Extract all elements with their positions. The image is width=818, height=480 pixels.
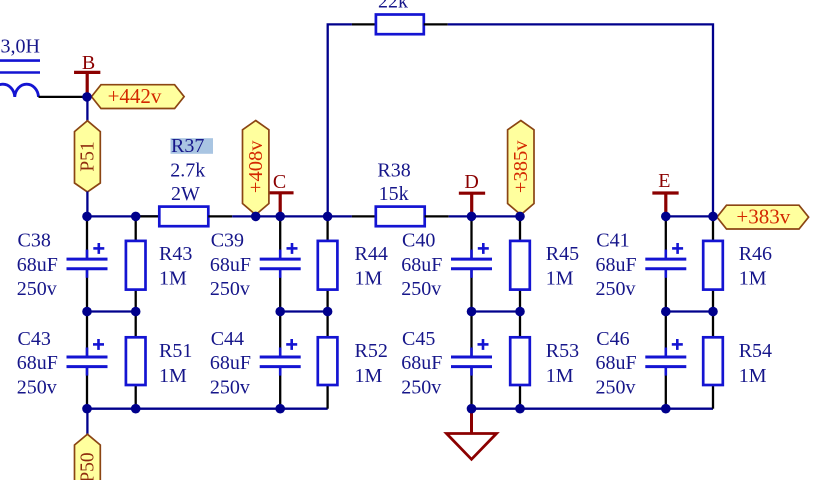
capacitor C38 value label 68uF [17,254,58,276]
resistor R38 left pin [352,215,376,217]
capacitor C41 rating label 250v [596,278,636,300]
resistor R-22k left pin [352,23,376,25]
resistor R46 value label 1M [739,268,767,290]
node C marker [267,171,293,216]
junction top rail at +385v / R45 [515,212,525,222]
resistor R53 designator label [546,340,579,362]
resistor R53 pins [519,312,521,409]
junction bottom rail at C46 [661,404,671,414]
junction top rail at R44 / 22k loop [323,212,333,222]
resistor R43 value label 1M [159,268,187,290]
svg-text:1M: 1M [546,268,574,290]
junction middle rail at R44 [323,307,333,317]
resistor R51 pins [135,312,137,409]
capacitor C38 designator label [18,229,51,251]
resistor R46 pins [712,216,714,311]
capacitor C38 pins [86,216,88,311]
capacitor C41 pins [665,216,667,311]
junction middle rail at C39 [275,307,285,317]
wire middle rail C38/R43 [87,310,136,312]
svg-text:C44: C44 [211,328,244,350]
svg-text:250v: 250v [210,377,250,399]
capacitor C44 designator label [211,328,244,350]
capacitor C45 value label 68uF [401,352,442,374]
svg-text:2.7k: 2.7k [170,160,205,182]
svg-text:68uF: 68uF [401,254,442,276]
resistor R38 right pin [425,215,449,217]
capacitor C45 pins [470,312,472,409]
wire middle rail C41/R46 [666,310,713,312]
inductor L1 value label 3,0H [1,36,40,58]
capacitor C45 rating label 250v [401,377,441,399]
svg-text:1M: 1M [739,268,767,290]
wire 22k loop top horizontal and right vertical [448,24,713,216]
resistor R45 value label 1M [546,268,574,290]
resistor R38 designator label [377,160,410,182]
svg-text:1M: 1M [355,365,383,387]
wire bottom rail right segment [472,408,714,410]
power flag +383v [717,205,809,230]
wire top rail segment R38 to node +385v [449,215,520,217]
connector P51 [75,121,101,192]
junction middle rail at R45 [515,307,525,317]
power flag +442v [92,84,185,109]
capacitor C39 designator label [211,229,244,251]
capacitor C43 value label 68uF [17,352,58,374]
junction top rail at +383v / R46 [708,212,718,222]
resistor R53 [510,337,530,385]
resistor R43 designator label [159,243,192,265]
svg-text:1M: 1M [355,268,383,290]
resistor R44 pins [326,216,328,311]
svg-text:C46: C46 [596,328,629,350]
svg-text:250v: 250v [596,377,636,399]
resistor R44 [318,241,338,290]
junction bottom rail at C44 [275,404,285,414]
resistor R46 designator label [739,243,772,265]
resistor R52 value label 1M [355,365,383,387]
resistor R52 designator label [355,340,388,362]
svg-text:C43: C43 [18,328,51,350]
svg-text:R53: R53 [546,340,579,362]
capacitor C46 designator label [596,328,629,350]
wire top rail segment R37 to R38 [232,215,352,217]
svg-text:+383v: +383v [736,205,790,229]
svg-text:R46: R46 [739,243,772,265]
resistor R37 right pin [208,215,232,217]
svg-text:1M: 1M [546,365,574,387]
capacitor C44 value label 68uF [210,352,251,374]
resistor R45 [510,241,530,290]
resistor R54 designator label [739,340,772,362]
capacitor C39 value label 68uF [210,254,251,276]
power flag +385v [508,121,534,215]
svg-text:P50: P50 [78,452,99,480]
resistor R37 left pin [136,215,160,217]
capacitor C46 value label 68uF [596,352,637,374]
svg-text:R45: R45 [546,243,579,265]
svg-text:1M: 1M [159,268,187,290]
svg-text:250v: 250v [17,278,57,300]
ground [447,409,497,460]
svg-text:R52: R52 [355,340,388,362]
svg-text:68uF: 68uF [596,254,637,276]
capacitor C41 value label 68uF [596,254,637,276]
junction middle rail at C38 [82,307,92,317]
resistor R52 [318,337,338,385]
capacitor C41 designator label [596,229,629,251]
capacitor C46 [645,339,686,376]
resistor R38 [376,207,425,227]
inductor L1 winding [0,84,39,97]
wire bottom rail left segment [87,408,328,410]
resistor R51 designator label [159,340,192,362]
power flag +408v [243,121,269,215]
svg-text:250v: 250v [17,377,57,399]
wire inductor to node B [39,96,88,98]
node B marker [74,52,100,97]
svg-text:B: B [82,52,95,74]
resistor R37 designator label (highlighted) [171,135,214,157]
resistor R52 pins [326,312,328,409]
junction bottom rail at R51 [131,404,141,414]
resistor R54 [703,337,723,385]
capacitor C43 rating label 250v [17,377,57,399]
resistor R-22k value label 22k [378,0,408,13]
junction node B [82,92,92,102]
svg-text:1M: 1M [159,365,187,387]
resistor R44 designator label [355,243,388,265]
resistor R51 value label 1M [159,365,187,387]
capacitor C39 [260,243,301,278]
capacitor C38 [67,243,108,278]
resistor R45 designator label [546,243,579,265]
svg-text:C41: C41 [596,229,629,251]
junction middle rail at R43 [131,307,141,317]
capacitor C39 pins [279,216,281,311]
svg-text:E: E [658,170,670,192]
capacitor C38 rating label 250v [17,278,57,300]
node E marker [652,170,678,216]
svg-text:R44: R44 [355,243,388,265]
capacitor C45 [451,339,492,376]
svg-text:C38: C38 [18,229,51,251]
svg-text:R51: R51 [159,340,192,362]
junction top rail at node C / C39 [275,212,285,222]
svg-text:D: D [464,171,478,193]
capacitor C46 pins [665,312,667,409]
svg-text:250v: 250v [210,278,250,300]
svg-text:68uF: 68uF [596,352,637,374]
svg-text:+408v: +408v [245,140,267,193]
resistor R37 value label 2.7k [170,160,205,182]
svg-text:22k: 22k [378,0,408,13]
resistor R51 [126,337,146,385]
resistor R-22k [376,15,424,35]
svg-text:2W: 2W [171,183,200,205]
resistor R45 pins [519,216,521,311]
capacitor C44 pins [279,312,281,409]
capacitor C44 rating label 250v [210,377,250,399]
wire middle rail C40/R45 [472,310,521,312]
svg-text:1M: 1M [739,365,767,387]
svg-text:3,0H: 3,0H [1,36,40,58]
junction bottom rail at P50 [82,404,92,414]
wire 22k loop left vertical and top-left corner [328,24,352,216]
capacitor C39 rating label 250v [210,278,250,300]
junction top rail at R43 [131,212,141,222]
junction top rail at +408v [251,212,261,222]
resistor R38 value label 15k [379,183,409,205]
capacitor C45 designator label [402,328,435,350]
wire node B to P51 [86,97,88,122]
capacitor C41 [645,243,686,278]
resistor R-22k right pin [424,23,448,25]
resistor R53 value label 1M [546,365,574,387]
junction top rail at node E / C41 [661,212,671,222]
svg-text:68uF: 68uF [210,254,251,276]
svg-text:250v: 250v [596,278,636,300]
svg-text:R54: R54 [739,340,772,362]
svg-text:+385v: +385v [510,140,532,193]
resistor R54 pins [712,312,714,409]
wire middle rail C39/R44 [280,310,327,312]
resistor R37 [159,207,208,227]
resistor R46 [703,241,723,290]
svg-text:R43: R43 [159,243,192,265]
wire P51 to top rail [86,192,88,217]
inductor L1 core bars [0,61,40,73]
capacitor C40 [451,243,492,278]
svg-text:68uF: 68uF [17,254,58,276]
junction bottom rail at ground / C45 [467,404,477,414]
svg-text:68uF: 68uF [401,352,442,374]
svg-text:C: C [273,171,286,193]
resistor R43 [126,241,146,290]
connector P50 [75,434,101,480]
svg-text:C39: C39 [211,229,244,251]
wire bottom rail to P50 [86,409,88,435]
wire top rail segment node E to +383v corner [666,215,713,217]
svg-text:15k: 15k [379,183,409,205]
svg-text:P51: P51 [78,141,99,171]
svg-text:68uF: 68uF [17,352,58,374]
capacitor C46 rating label 250v [596,377,636,399]
capacitor C40 pins [470,216,472,311]
capacitor C43 [67,339,108,376]
svg-text:+442v: +442v [108,84,162,108]
capacitor C43 pins [86,312,88,409]
junction middle rail at C41 [661,307,671,317]
svg-text:R38: R38 [377,160,410,182]
svg-text:C45: C45 [402,328,435,350]
capacitor C40 rating label 250v [401,278,441,300]
resistor R43 pins [135,216,137,311]
svg-text:C40: C40 [402,229,435,251]
capacitor C43 designator label [18,328,51,350]
svg-text:250v: 250v [401,278,441,300]
resistor R44 value label 1M [355,268,383,290]
resistor R37 rating label 2W [171,183,200,205]
capacitor C44 [260,339,301,376]
junction middle rail at R46 [708,307,718,317]
node D marker [459,171,485,216]
resistor R54 value label 1M [739,365,767,387]
junction middle rail at C40 [467,307,477,317]
junction top rail at node D / C40 [467,212,477,222]
capacitor C40 designator label [402,229,435,251]
junction bottom rail at R53 [515,404,525,414]
svg-text:250v: 250v [401,377,441,399]
svg-text:68uF: 68uF [210,352,251,374]
junction top rail at P51 column [82,212,92,222]
svg-text:R37: R37 [171,135,204,157]
wire top rail segment node B column to R37 [87,215,159,217]
capacitor C40 value label 68uF [401,254,442,276]
